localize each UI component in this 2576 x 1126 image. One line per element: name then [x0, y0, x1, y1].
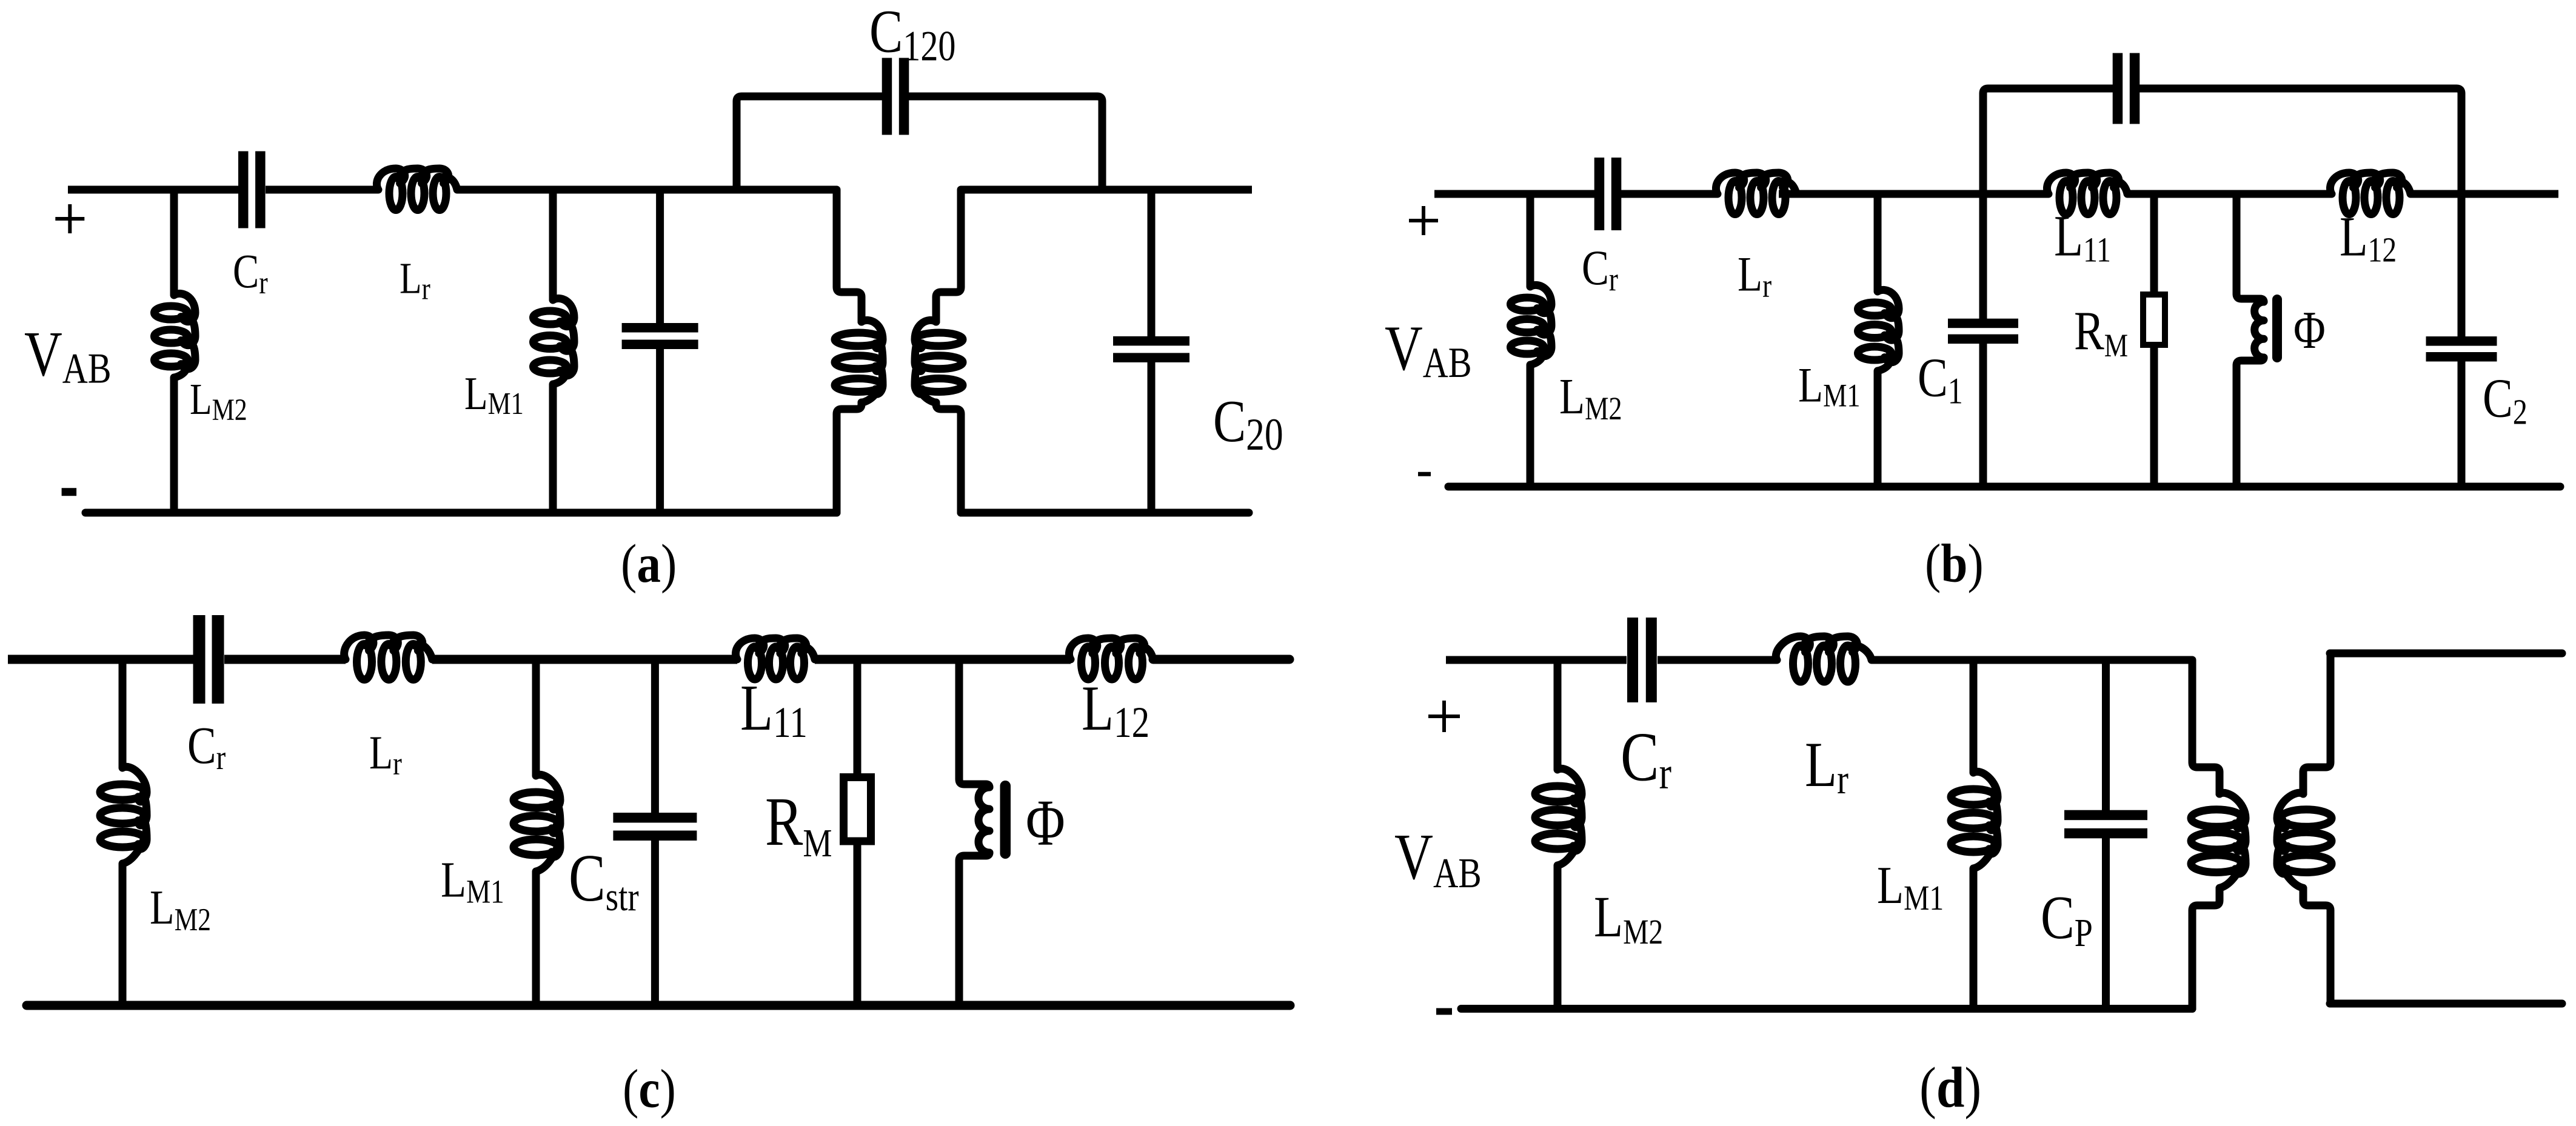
svg-text:(b): (b) — [1925, 533, 1984, 594]
svg-text:Φ: Φ — [2293, 301, 2326, 359]
svg-text:(d): (d) — [1919, 1056, 1981, 1120]
svg-text:(a): (a) — [621, 533, 677, 594]
svg-text:Φ: Φ — [1026, 787, 1065, 859]
svg-text:(c): (c) — [623, 1059, 676, 1119]
